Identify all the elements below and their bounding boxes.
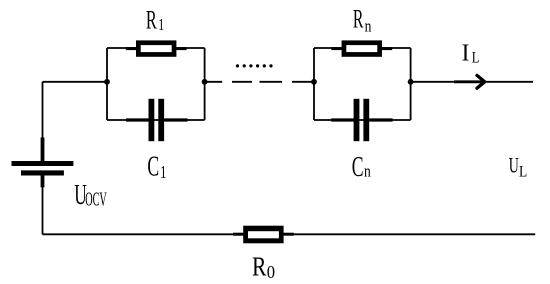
svg-text:U: U: [509, 153, 519, 178]
svg-text:C: C: [352, 152, 364, 183]
svg-text:1: 1: [158, 16, 164, 35]
svg-text:R: R: [252, 252, 267, 282]
svg-text:I: I: [462, 40, 470, 67]
svg-text:0: 0: [267, 263, 275, 282]
svg-text:1: 1: [160, 163, 166, 183]
svg-text:R: R: [146, 6, 157, 35]
svg-text:L: L: [519, 163, 527, 180]
svg-text:R: R: [353, 5, 364, 34]
svg-text:L: L: [472, 49, 480, 67]
svg-text:n: n: [364, 162, 371, 181]
svg-text:C: C: [147, 151, 159, 182]
svg-text:n: n: [365, 17, 372, 36]
svg-text:OCV: OCV: [85, 188, 107, 211]
